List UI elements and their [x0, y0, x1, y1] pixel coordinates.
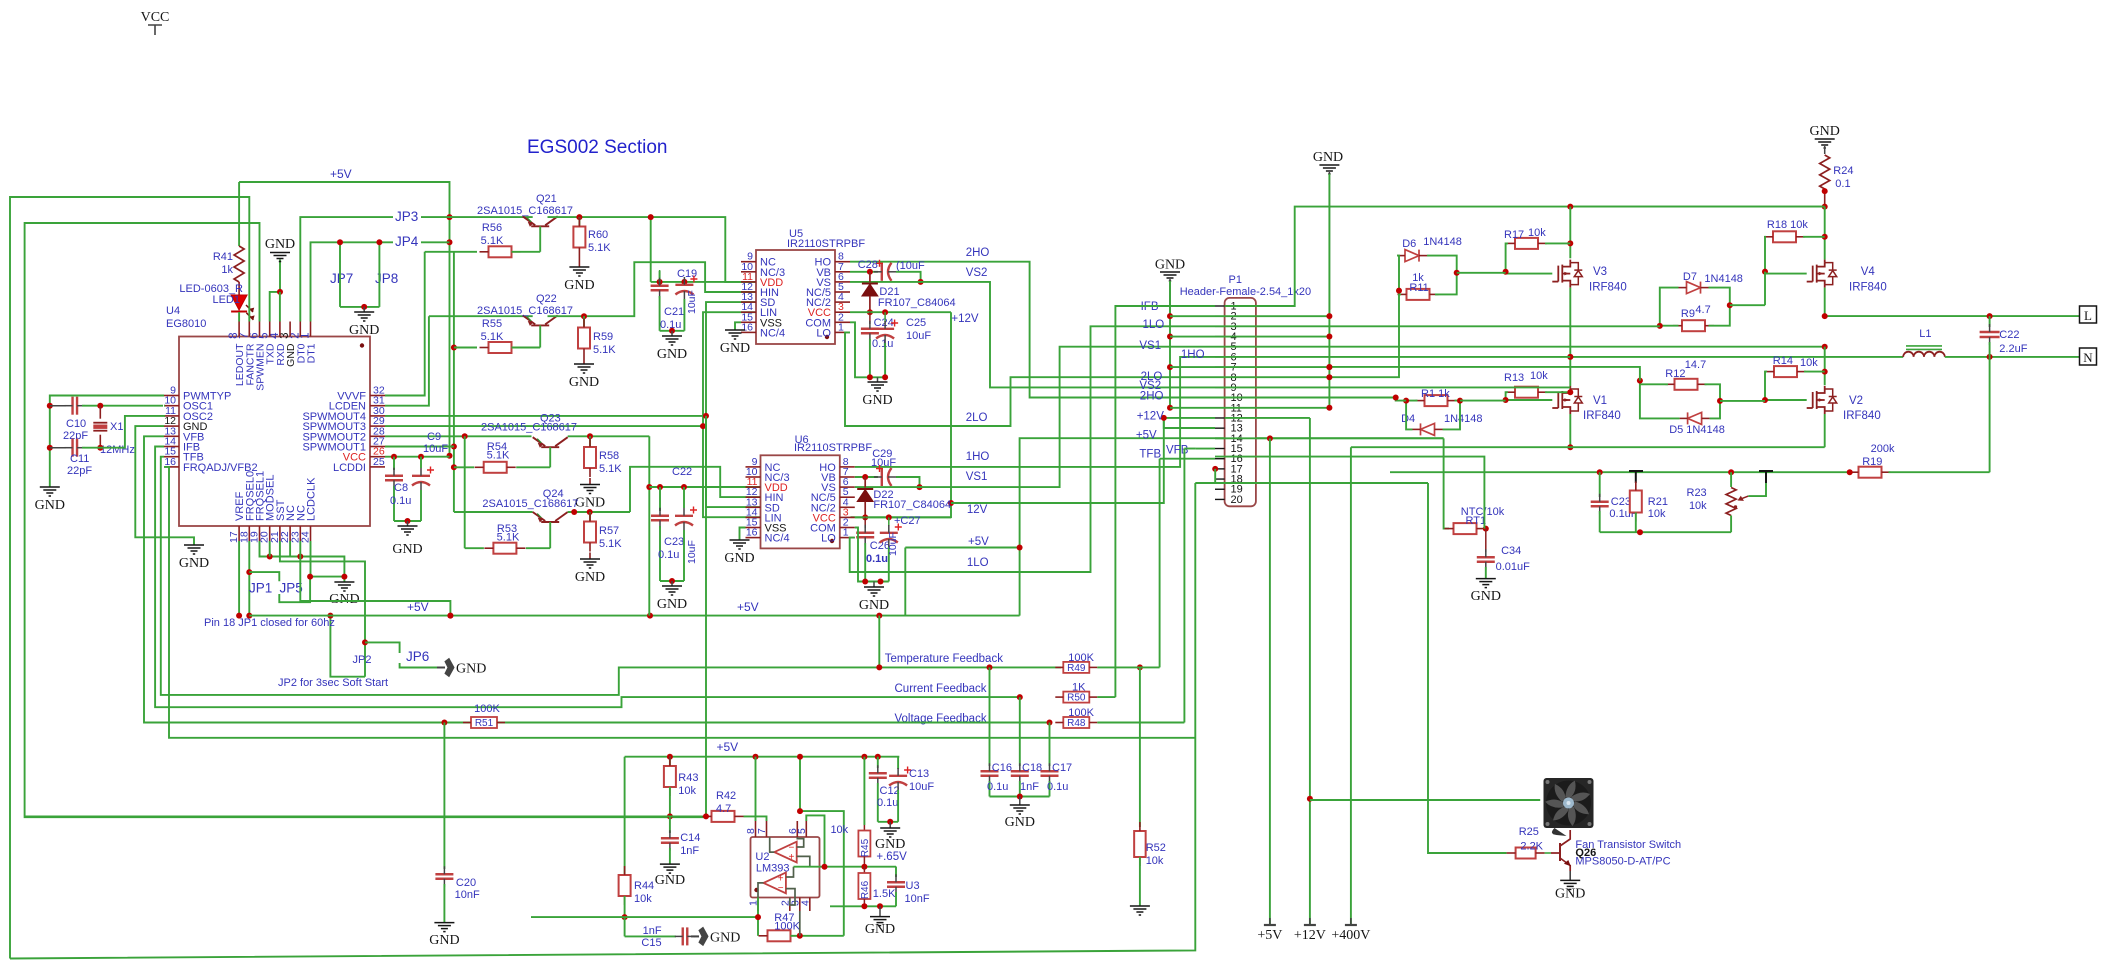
- junction R59: [581, 313, 587, 319]
- wire R13 left to V1 gate: [1506, 392, 1553, 400]
- wire 1HO row: [855, 357, 1215, 467]
- svg-text:+12V: +12V: [1137, 411, 1165, 423]
- wire R14 right: [1804, 371, 1825, 373]
- svg-text:C13: C13: [909, 768, 929, 780]
- svg-text:R57: R57: [599, 525, 619, 537]
- capacitor C27 10uF: [888, 517, 890, 526]
- svg-text:4: 4: [799, 900, 811, 906]
- svg-text:Pin 18 JP1 closed for 60hz: Pin 18 JP1 closed for 60hz: [204, 617, 335, 629]
- svg-text:R42: R42: [716, 790, 736, 802]
- wire R18 left to V4 gate: [1765, 237, 1766, 272]
- wire D6R11 to V3 gate row: [1457, 272, 1506, 274]
- wire TFB row to RT1: [1390, 457, 1484, 529]
- svg-text:5.1K: 5.1K: [497, 532, 520, 544]
- svg-text:2.2uF: 2.2uF: [1999, 343, 2027, 355]
- svg-text:JP7: JP7: [330, 271, 353, 286]
- junction R50 left: [1017, 694, 1023, 700]
- wire R47 row: [757, 898, 759, 936]
- wire R17 right: [1545, 242, 1570, 244]
- svg-text:10nF: 10nF: [455, 889, 480, 901]
- ground opamp area: [879, 906, 881, 916]
- svg-text:R60: R60: [588, 229, 608, 241]
- capacitor C20 10nF: [435, 874, 453, 879]
- junction B R54 row: [451, 464, 457, 470]
- net tie T1: [1629, 471, 1643, 483]
- svg-text:R11: R11: [1409, 282, 1428, 294]
- svg-text:10k: 10k: [1648, 508, 1666, 520]
- svg-text:+5V: +5V: [717, 740, 739, 754]
- svg-text:LCDEN: LCDEN: [329, 401, 366, 413]
- svg-text:LEDOUT: LEDOUT: [234, 343, 246, 386]
- svg-text:GND: GND: [657, 347, 687, 362]
- wire fan net row: [1195, 482, 1428, 484]
- svg-text:200k: 200k: [1871, 443, 1895, 455]
- svg-text:V4: V4: [1861, 266, 1876, 278]
- wire R19 right: [1889, 471, 1990, 473]
- svg-text:10k: 10k: [678, 785, 696, 797]
- ground R58: [580, 485, 600, 494]
- opamp U2B: [764, 873, 786, 894]
- svg-text:HO: HO: [819, 462, 836, 474]
- wire 1HO row to R12/D5: [1329, 367, 1640, 381]
- svg-text:100K: 100K: [774, 921, 800, 933]
- resistor R59 5.1K: [583, 316, 585, 327]
- svg-text:D6: D6: [1402, 238, 1416, 250]
- wire Q22 collector to U5 HIN: [548, 262, 757, 316]
- svg-text:TXD: TXD: [265, 343, 277, 364]
- wire D5R12 to V2 gate: [1720, 400, 1765, 402]
- svg-text:DT1: DT1: [306, 343, 318, 363]
- junction C10/X1 top: [97, 403, 103, 409]
- power flag GND JP6: [445, 659, 454, 677]
- wire pin19 row: [260, 541, 345, 582]
- svg-text:+12V: +12V: [1294, 928, 1326, 943]
- transistor Q26 MPS8050: [1559, 843, 1561, 861]
- wire +5V drop 905: [904, 548, 906, 616]
- svg-text:+5V: +5V: [407, 600, 429, 614]
- svg-text:7: 7: [238, 333, 250, 339]
- svg-text:10k: 10k: [634, 893, 652, 905]
- svg-text:VCC: VCC: [141, 10, 170, 25]
- svg-text:10k: 10k: [1689, 500, 1707, 512]
- svg-text:GND: GND: [1471, 589, 1501, 604]
- junction +12V fan: [1307, 796, 1313, 802]
- junction R49 right: [1137, 664, 1143, 670]
- svg-text:10k: 10k: [1528, 227, 1546, 239]
- wire bus B vertical: [453, 252, 455, 512]
- wire SPWMOUT1 row: [385, 446, 454, 448]
- wire 2LO row to D6/R11: [1215, 294, 1399, 377]
- wire SPWMOUT3 row to U5 LIN: [385, 312, 756, 426]
- svg-text:IRF840: IRF840: [1849, 282, 1887, 294]
- wire R12/D5 left junction: [1640, 384, 1680, 418]
- capacitor C11 22pF: [50, 447, 66, 449]
- resistor R57 5.1K: [589, 512, 591, 522]
- wire D7/R9 left junction: [1660, 288, 1679, 326]
- wire pin24 down: [310, 541, 312, 577]
- junction C25 top: [882, 309, 888, 315]
- svg-text:1HO: 1HO: [1181, 349, 1205, 361]
- svg-text:0.1u: 0.1u: [872, 338, 893, 350]
- svg-text:GND: GND: [35, 498, 65, 513]
- svg-text:GND: GND: [862, 393, 892, 408]
- junction rail/C10: [47, 403, 53, 409]
- wire D4/R1 right junction: [1443, 401, 1461, 430]
- jumper JP2 stub: [365, 642, 400, 653]
- wire FANCTR to left bus: [10, 197, 249, 959]
- svg-text:8: 8: [228, 333, 240, 339]
- ground C34: [1476, 579, 1496, 588]
- ground R60: [569, 267, 589, 276]
- svg-text:GND: GND: [564, 278, 594, 293]
- junction temp row left: [987, 664, 993, 670]
- capacitor C24 0.1u: [869, 312, 871, 324]
- svg-text:X1: X1: [110, 421, 123, 433]
- wire R46/U3 gnd row: [830, 905, 896, 907]
- transistor V3 IRF840: [1552, 260, 1570, 288]
- ground JP5 area: [341, 574, 347, 580]
- wire 12V row to header: [951, 418, 1215, 503]
- wire R42 row from left bus: [25, 815, 703, 817]
- svg-text:GND: GND: [456, 662, 486, 677]
- wire +12V to fan: [1310, 799, 1540, 801]
- pot R23 wiper arrow: [1739, 496, 1748, 500]
- svg-text:100K: 100K: [1068, 707, 1094, 719]
- wire D7R9 to V4 gate: [1730, 304, 1765, 306]
- wire +400V row: [1351, 446, 1825, 448]
- svg-text:FR107_C84064: FR107_C84064: [878, 297, 956, 309]
- svg-text:10k: 10k: [1800, 357, 1818, 369]
- wire V3 drain drop: [1569, 207, 1571, 259]
- svg-text:GND: GND: [265, 237, 295, 252]
- junction U6 VDD rail: [646, 484, 652, 490]
- svg-text:IRF840: IRF840: [1589, 282, 1627, 294]
- svg-text:R14: R14: [1773, 355, 1793, 367]
- transistor Q22 2SA1015: [523, 315, 558, 325]
- svg-text:5.1K: 5.1K: [599, 463, 622, 475]
- ground C12/C13: [889, 822, 891, 828]
- svg-text:R12: R12: [1665, 368, 1685, 380]
- junction SPWM2/R53 branch: [462, 433, 468, 439]
- wire Q21 emitter row JP3: [450, 216, 533, 218]
- junction VDD riser: [650, 217, 652, 282]
- wire PWMTYP to left rail: [50, 396, 164, 488]
- svg-text:R9: R9: [1681, 308, 1695, 320]
- wire U6 VCC row: [855, 516, 951, 518]
- wire rail left drop: [624, 757, 626, 875]
- svg-text:1: 1: [300, 333, 312, 339]
- wire VCC row +12V: [850, 311, 951, 313]
- wire V4 source to L: [1824, 288, 1826, 317]
- svg-text:Q22: Q22: [536, 293, 557, 305]
- wire R18 right: [1803, 236, 1825, 238]
- svg-text:2SA1015_C168617: 2SA1015_C168617: [482, 498, 578, 510]
- transistor V4 IRF840: [1807, 260, 1825, 288]
- wire C12 C13 bottom: [878, 821, 898, 823]
- resistor R43 10k: [669, 757, 671, 766]
- wire +12V through header: [1225, 417, 1310, 419]
- svg-text:JP3: JP3: [395, 209, 418, 224]
- junction R43 top: [667, 754, 673, 760]
- resistor R51 100K: [471, 717, 497, 728]
- junction 12V row: [948, 500, 954, 506]
- svg-text:R56: R56: [482, 222, 502, 234]
- svg-text:R13: R13: [1504, 372, 1524, 384]
- output row N: [1570, 356, 1903, 358]
- svg-text:1HO: 1HO: [966, 451, 990, 463]
- net tie T2: [1759, 471, 1773, 483]
- wire shunt rail left: [1570, 206, 1824, 208]
- svg-text:7: 7: [756, 828, 768, 834]
- ground left oscillator rail: [40, 487, 60, 496]
- svg-text:1LO: 1LO: [967, 557, 989, 569]
- svg-text:32: 32: [373, 385, 385, 397]
- junction R51 left: [441, 720, 447, 726]
- svg-text:L1: L1: [1919, 328, 1931, 340]
- svg-text:GND: GND: [1005, 815, 1035, 830]
- jumper JP1 stub: [249, 572, 279, 581]
- svg-text:+12V: +12V: [951, 313, 979, 325]
- wire V4 drain drop: [1824, 207, 1826, 260]
- wire Q21 collector to VDD riser: [548, 217, 757, 282]
- net JP4 wire DT1: [311, 242, 450, 321]
- wire U6 LIN from bus: [703, 426, 761, 517]
- wire +5V row U6 right: [905, 547, 1019, 549]
- wire +5V mid rail: [249, 615, 1019, 617]
- svg-text:R21: R21: [1648, 496, 1668, 508]
- U2 pin stubs top: [755, 821, 757, 837]
- svg-text:Q21: Q21: [536, 193, 557, 205]
- svg-text:R41: R41: [213, 251, 233, 263]
- ground R52: [1130, 906, 1150, 915]
- svg-text:1N4148: 1N4148: [1704, 273, 1743, 285]
- junction D21 top: [867, 269, 873, 275]
- wire RXD up: [279, 292, 281, 322]
- wire R13 right: [1545, 391, 1570, 393]
- svg-text:14.7: 14.7: [1685, 359, 1706, 371]
- junction C11/X1 bottom: [97, 445, 103, 451]
- resistor R13 10k: [1515, 387, 1538, 398]
- filter capacitor C17 0.1u: [1049, 723, 1051, 767]
- resistor R1 1k: [1425, 395, 1448, 406]
- wire Q22 base: [539, 325, 541, 347]
- wire voltage row: [456, 722, 1050, 724]
- potentiometer R23 10k: [1730, 472, 1732, 487]
- connector P1 Header-Female-2.54_1x20 body: [1225, 298, 1256, 506]
- svg-text:Current Feedback: Current Feedback: [895, 683, 987, 695]
- wire U6 VSS gnd: [740, 528, 746, 541]
- junction LIN bus: [700, 423, 706, 429]
- svg-text:C12: C12: [880, 785, 900, 797]
- capacitor C28 10uF: [881, 263, 883, 281]
- svg-text:L: L: [2084, 308, 2092, 323]
- resistor R46 1.5K: [863, 867, 865, 874]
- junction rail/C11: [47, 445, 53, 451]
- svg-text:10uF: 10uF: [686, 540, 698, 564]
- svg-text:D7: D7: [1683, 271, 1697, 283]
- svg-text:2HO: 2HO: [966, 247, 990, 259]
- svg-text:10uF: 10uF: [906, 330, 931, 342]
- wire Q22 emitter row LCDEN: [429, 315, 533, 317]
- svg-text:+400V: +400V: [1331, 928, 1370, 943]
- wire TXD jog: [270, 292, 280, 322]
- junction +5V/VCC pin26: [447, 453, 453, 459]
- wire pin20 down: [269, 541, 271, 557]
- gnd bus rows through header: [1170, 315, 1329, 317]
- svg-text:5: 5: [259, 333, 271, 339]
- svg-text:0.1u: 0.1u: [390, 495, 411, 507]
- svg-text:0.1u: 0.1u: [866, 553, 888, 565]
- junction C9: [418, 454, 424, 460]
- svg-text:22pF: 22pF: [63, 430, 88, 442]
- svg-text:2HO: 2HO: [1140, 391, 1164, 403]
- svg-text:8: 8: [843, 456, 849, 468]
- wire R25 to base: [1545, 852, 1551, 854]
- resistor R60 5.1K: [578, 217, 580, 226]
- svg-text:20: 20: [1231, 494, 1243, 506]
- svg-text:GND: GND: [349, 323, 379, 338]
- capacitor C34 0.01uF: [1485, 529, 1487, 552]
- wire LO 1LO: [850, 326, 1215, 572]
- svg-text:GND: GND: [392, 542, 422, 557]
- wire C15 row: [624, 917, 626, 936]
- LED LED1 LED-0603_R: [238, 282, 240, 295]
- junction R44 bottom: [622, 914, 628, 920]
- transistor Q21 2SA1015: [523, 216, 558, 226]
- wire Q24 emitter row: [454, 511, 533, 513]
- power +12V bottom: [1304, 924, 1316, 926]
- ground R59: [574, 364, 594, 373]
- svg-text:C20: C20: [456, 877, 476, 889]
- svg-text:JP2: JP2: [353, 654, 372, 666]
- wire VS1 row: [855, 347, 1215, 487]
- junction D22 VCC: [862, 514, 868, 520]
- wire row 917 left: [531, 916, 625, 918]
- resistor R25 2.2K: [1516, 848, 1536, 859]
- transistor Q24 2SA1015: [533, 512, 568, 522]
- svg-text:JP4: JP4: [395, 234, 419, 249]
- svg-text:0.1: 0.1: [1835, 178, 1850, 190]
- U2 LM393 IC body: [751, 837, 820, 898]
- wire VS2 row right part: [1215, 386, 1570, 388]
- wire VB row to C28: [850, 271, 878, 273]
- wire row 917 right to pin1: [625, 916, 758, 918]
- wire 1HO row through to N node: [1215, 356, 1570, 358]
- junction rail x650: [647, 613, 653, 619]
- svg-text:2LO: 2LO: [966, 412, 988, 424]
- resistor R21 10k: [1635, 483, 1637, 491]
- wire C10 to X1/pin10: [82, 405, 163, 407]
- svg-text:1.5K: 1.5K: [873, 888, 896, 900]
- P1 pins: [1215, 305, 1225, 307]
- svg-text:NC/4: NC/4: [760, 327, 785, 339]
- svg-text:0.1u: 0.1u: [987, 781, 1008, 793]
- wire IFB pin1: [1115, 306, 1215, 697]
- wire R42 right to pin7: [744, 816, 767, 821]
- U5 IR2110STRPBF IC body: [756, 250, 835, 344]
- U4 left pins: [164, 395, 179, 397]
- junction +5V row: [1017, 545, 1023, 551]
- net JP3 wire DT0: [300, 217, 449, 321]
- wire TFB down: [161, 457, 1061, 695]
- thermistor RT1 NTC/10k: [1454, 523, 1477, 534]
- resistor R44 10k: [624, 874, 626, 876]
- gnd bus left verticals: [1169, 316, 1171, 408]
- diode D21 FR107: [869, 272, 871, 282]
- opamp U2A: [774, 842, 796, 863]
- wire LED1 to pin8: [238, 312, 240, 322]
- wire C29 to VS: [896, 477, 920, 487]
- svg-text:HO: HO: [815, 257, 832, 269]
- svg-text:C21: C21: [664, 306, 684, 318]
- svg-text:VS1: VS1: [966, 471, 988, 483]
- svg-text:22pF: 22pF: [67, 465, 92, 477]
- wire FRQADJ down: [164, 467, 1195, 738]
- wire VS1 row right to switch node: [1215, 346, 1825, 348]
- svg-text:Temperature Feedback: Temperature Feedback: [885, 653, 1004, 665]
- ground Q26: [1560, 880, 1580, 889]
- svg-text:C18: C18: [1022, 762, 1042, 774]
- wire VB row U6: [855, 476, 878, 478]
- resistor R48 100K: [1063, 717, 1089, 728]
- svg-text:R49: R49: [1067, 663, 1086, 674]
- U2 pin stubs bottom: [757, 898, 759, 912]
- svg-text:1k: 1k: [221, 264, 233, 276]
- capacitor C23 0.1uF sense: [1599, 472, 1601, 497]
- wire pin1 to top GND rail: [1225, 207, 1825, 306]
- wire R53 branch vertical: [464, 436, 466, 548]
- wire +.65V row: [794, 866, 897, 868]
- capacitor C21 0.1u: [659, 270, 661, 282]
- svg-text:4.7: 4.7: [716, 803, 731, 815]
- svg-text:TFB: TFB: [1139, 448, 1161, 460]
- wire Q24 collector to U6 HIN link: [630, 467, 761, 512]
- svg-text:R45: R45: [860, 838, 871, 857]
- wire +12V to pin13: [1164, 418, 1215, 428]
- ground C14: [660, 864, 680, 873]
- wire fan net to base resistor: [1428, 483, 1507, 853]
- wire R50 right to IFB riser: [1097, 696, 1115, 698]
- junction C23u6: [657, 484, 663, 490]
- diode D22 FR107: [864, 477, 866, 488]
- junction pin8 rail: [753, 754, 759, 760]
- wire +5V opamp rail: [625, 756, 900, 758]
- connector L: [2080, 306, 2097, 323]
- svg-text:GND: GND: [875, 837, 905, 852]
- gnd bus right vertical: [1328, 316, 1330, 408]
- wire 2HO row to D4/R1: [1215, 398, 1406, 401]
- svg-text:GND: GND: [1313, 150, 1343, 165]
- svg-text:+5V: +5V: [1136, 430, 1157, 442]
- svg-text:1nF: 1nF: [680, 845, 699, 857]
- junction sense R23: [1728, 469, 1734, 475]
- ground R57: [580, 559, 600, 568]
- svg-text:5.1K: 5.1K: [481, 331, 504, 343]
- junction R57: [587, 509, 593, 515]
- svg-text:U2: U2: [755, 851, 769, 863]
- wire U2B output to pin1: [758, 883, 764, 898]
- resistor R50 1K: [1063, 692, 1089, 703]
- wire VDD riser U6 from Q23 collector: [648, 436, 650, 615]
- svg-text:5.1K: 5.1K: [593, 344, 616, 356]
- capacitor C22 10uF (U6): [683, 487, 685, 508]
- wire pin3 to R47 row: [799, 911, 801, 936]
- wire +5V riser to header row14: [1020, 438, 1444, 615]
- wire V1 source down: [1569, 414, 1571, 447]
- wire +400V drop: [1350, 447, 1352, 925]
- capacitor C26 0.1u: [864, 517, 866, 528]
- wire +12V bottom drop: [1309, 418, 1311, 925]
